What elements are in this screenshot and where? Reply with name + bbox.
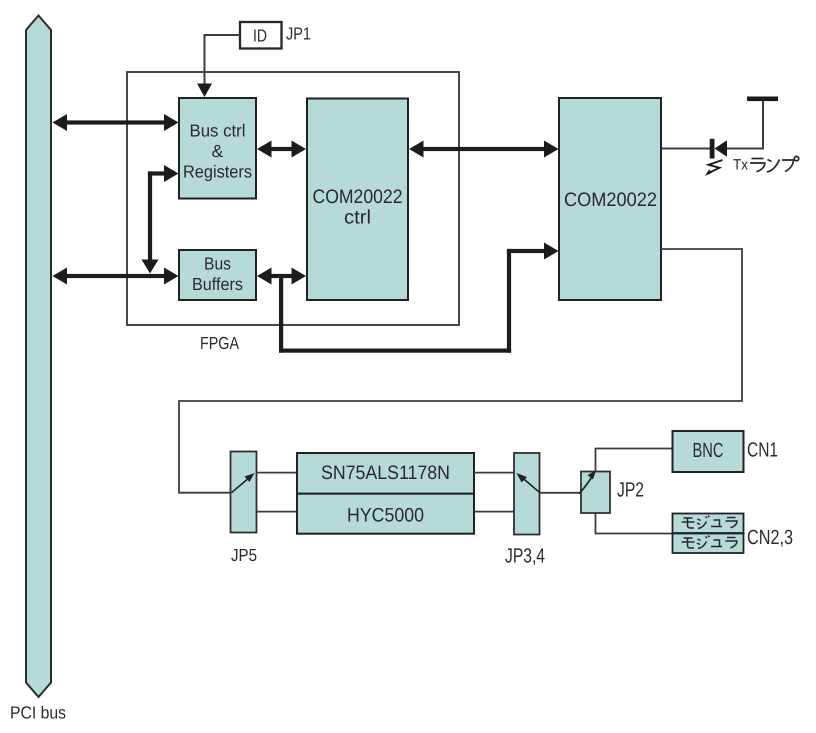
svg-text:HYC5000: HYC5000 <box>347 505 424 527</box>
connector modular jack 2 box <box>673 534 744 554</box>
PCI bus bar <box>26 16 51 698</box>
block Bus Buffers <box>179 250 256 300</box>
katakana ji (jack1) <box>697 516 710 529</box>
thick bus branch Bus Buffers arrow to COM20022 <box>279 243 559 353</box>
bus arrow PCI to Bus Buffers <box>53 268 179 285</box>
svg-text:SN75ALS1178N: SN75ALS1178N <box>321 462 450 484</box>
bus arrow Bus Buffers to COM20022 ctrl <box>257 268 306 285</box>
bus arrow PCI to Bus ctrl <box>53 114 179 131</box>
svg-text:ID: ID <box>253 26 267 46</box>
katakana ra (jack2) <box>726 538 738 548</box>
katakana yu (jack1) <box>711 520 722 527</box>
svg-text:COM20022: COM20022 <box>313 186 403 208</box>
jumper JP3,4 box <box>514 453 540 535</box>
wire ID to Bus ctrl <box>205 35 241 84</box>
block SN75ALS1178N <box>297 453 474 494</box>
L arrow Bus ctrl to lower bus <box>142 165 179 274</box>
diode triangle <box>715 140 728 157</box>
katakana mo (jack2) <box>682 538 695 548</box>
wire SN75ALS1178N to JP3,4 <box>474 472 514 474</box>
ID box <box>240 22 282 49</box>
connector BNC box <box>673 431 744 472</box>
svg-text:PCI bus: PCI bus <box>10 703 66 723</box>
svg-text:BNC: BNC <box>693 439 724 462</box>
wire JP2 to BNC <box>596 449 673 472</box>
block COM20022 ctrl <box>307 99 408 301</box>
katakana n (Tx lamp) <box>767 160 780 172</box>
svg-text:JP2: JP2 <box>617 479 644 502</box>
wire COM20022 to output section <box>179 249 742 493</box>
diode cathode bar <box>710 139 715 159</box>
katakana ra (Tx lamp) <box>750 159 765 172</box>
block HYC5000 <box>297 494 474 534</box>
bus arrow Bus ctrl to COM20022 ctrl <box>257 141 306 158</box>
block COM20022 <box>559 98 661 300</box>
svg-text:JP3,4: JP3,4 <box>505 545 545 568</box>
svg-text:Bus: Bus <box>204 254 231 274</box>
wire JP2 to modular jacks <box>596 513 673 534</box>
wire diode to power <box>727 101 763 149</box>
block Bus ctrl & Registers <box>179 98 256 199</box>
jumper JP2 box <box>581 472 610 514</box>
katakana pu (Tx lamp) <box>782 156 799 171</box>
katakana yu (jack2) <box>711 540 722 547</box>
svg-text:CN1: CN1 <box>747 439 778 462</box>
bus arrow COM20022 ctrl to COM20022 <box>409 141 559 158</box>
jumper JP2 switch diagonal <box>579 478 592 494</box>
svg-text:Bus ctrl: Bus ctrl <box>190 121 246 141</box>
svg-text:Buffers: Buffers <box>192 274 243 294</box>
svg-text:CN2,3: CN2,3 <box>747 526 793 549</box>
power bar <box>747 97 778 102</box>
svg-text:JP1: JP1 <box>286 24 311 44</box>
jumper JP5 switch diagonal <box>232 477 251 493</box>
wire JP5 to HYC5000 <box>257 511 297 513</box>
svg-text:&: & <box>212 141 224 161</box>
svg-text:Tx: Tx <box>733 157 748 174</box>
svg-text:ctrl: ctrl <box>344 207 371 229</box>
wire HYC5000 to JP3,4 <box>474 511 514 513</box>
svg-text:COM20022: COM20022 <box>564 189 657 211</box>
jumper JP3,4 switch diagonal <box>522 477 541 493</box>
svg-text:Registers: Registers <box>183 162 252 182</box>
LED light arrow <box>707 160 723 174</box>
connector modular jack 1 box <box>673 514 744 534</box>
arrowhead into Bus ctrl (JP1 arrow) <box>197 84 212 98</box>
katakana mo (jack1) <box>682 518 695 528</box>
wire JP3,4 to JP2 <box>540 492 582 494</box>
FPGA box <box>127 72 459 325</box>
wire COM20022 to Tx lamp diode <box>661 148 710 150</box>
jumper JP5 box <box>231 452 257 533</box>
katakana ji (jack2) <box>697 536 710 549</box>
svg-text:FPGA: FPGA <box>200 333 239 353</box>
wire JP5 to SN75ALS1178N <box>257 472 297 474</box>
svg-text:JP5: JP5 <box>231 545 257 565</box>
katakana ra (jack1) <box>726 518 738 528</box>
